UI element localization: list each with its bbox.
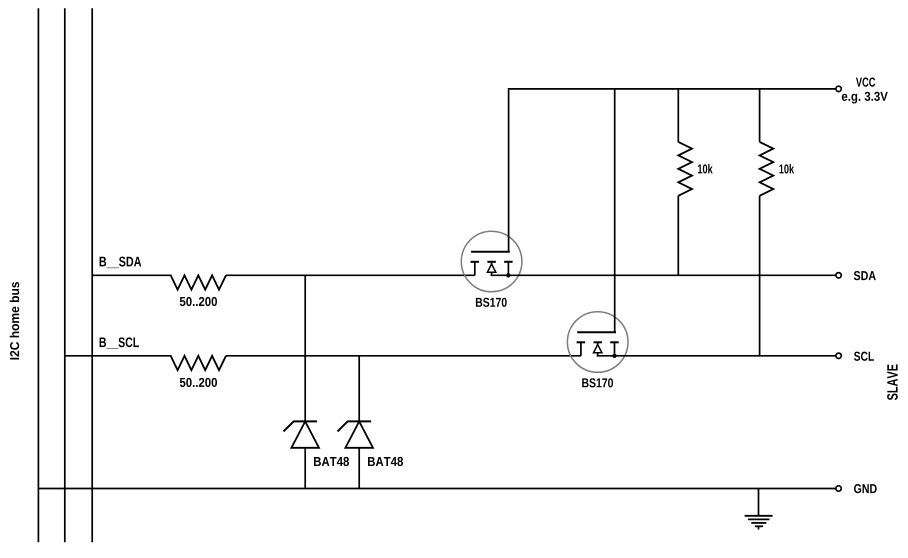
label SDA: [854, 271, 876, 280]
value 10k (R3): [698, 164, 713, 174]
wire R3 to SDA wire: [677, 196, 679, 275]
wire VCC rail to resistor R4: [759, 89, 761, 142]
bus line 2 (SCL bus, vertical): [64, 8, 66, 542]
wire SCL node to diode D2 cathode: [358, 356, 360, 422]
diode D1 BAT48 (schottky clamp to GND): [284, 421, 320, 447]
value 50..200 (R1): [180, 297, 217, 306]
value BAT48 (D2): [368, 457, 403, 466]
bus line 1 (GND bus, vertical): [37, 8, 39, 542]
value 50..200 (R2): [180, 378, 217, 387]
transistor Q1 BS170 (SDA level shifter): [461, 231, 522, 292]
junction dot Q1 source/body node: [506, 273, 510, 277]
bus line 3 (SDA bus, vertical): [91, 8, 93, 542]
wire Q1 source to SDA terminal: [491, 274, 836, 276]
terminal SCL: [836, 353, 841, 358]
resistor R1 50..200 (series SDA): [171, 275, 226, 289]
wire R2 to Q2 drain: [226, 355, 581, 357]
wire Q1 gate to VCC rail: [508, 90, 510, 252]
ground symbol (earth): [745, 489, 773, 530]
wire VCC rail to resistor R3: [677, 89, 679, 142]
resistor R3 10k (SDA pull-up): [678, 142, 692, 196]
resistor R4 10k (SCL pull-up): [760, 142, 774, 196]
wire B_SDA: bus line 3 to resistor R1: [92, 274, 171, 276]
label B__SCL: [100, 337, 139, 348]
transistor Q2 BS170 (SCL level shifter): [567, 312, 628, 373]
wire D1 anode to GND wire: [304, 448, 306, 489]
wire Q2 gate to VCC rail: [614, 89, 616, 332]
terminal VCC: [836, 86, 841, 91]
label SLAVE (rotated): [887, 364, 898, 400]
diode D2 BAT48 (schottky clamp to GND): [338, 421, 374, 447]
wire B_SCL: bus line 2 to resistor R2: [65, 355, 172, 357]
junction dot Q2 source/body node: [612, 354, 616, 358]
terminal GND: [836, 486, 841, 491]
label VCC: [856, 78, 875, 87]
label e.g. 3.3V: [842, 92, 888, 104]
wire SDA node to diode D1 cathode: [304, 275, 306, 421]
label I2C home bus (rotated): [10, 282, 20, 360]
label BS170 (Q1): [476, 298, 507, 307]
value BAT48 (D1): [314, 457, 349, 466]
label BS170 (Q2): [582, 378, 613, 387]
label B__SDA: [100, 257, 142, 268]
wire Q2 source to SCL terminal: [597, 355, 836, 357]
terminal SDA: [836, 273, 841, 278]
value 10k (R4): [779, 164, 794, 174]
wire GND: bus line 1 to GND terminal: [38, 488, 836, 490]
wire R1 to Q1 drain: [226, 274, 475, 276]
VCC rail: [508, 88, 836, 90]
resistor R2 50..200 (series SCL): [171, 356, 226, 370]
wire D2 anode to GND wire: [358, 448, 360, 489]
label SCL: [854, 352, 874, 361]
label GND: [854, 484, 877, 493]
wire R4 to SCL wire: [759, 196, 761, 356]
